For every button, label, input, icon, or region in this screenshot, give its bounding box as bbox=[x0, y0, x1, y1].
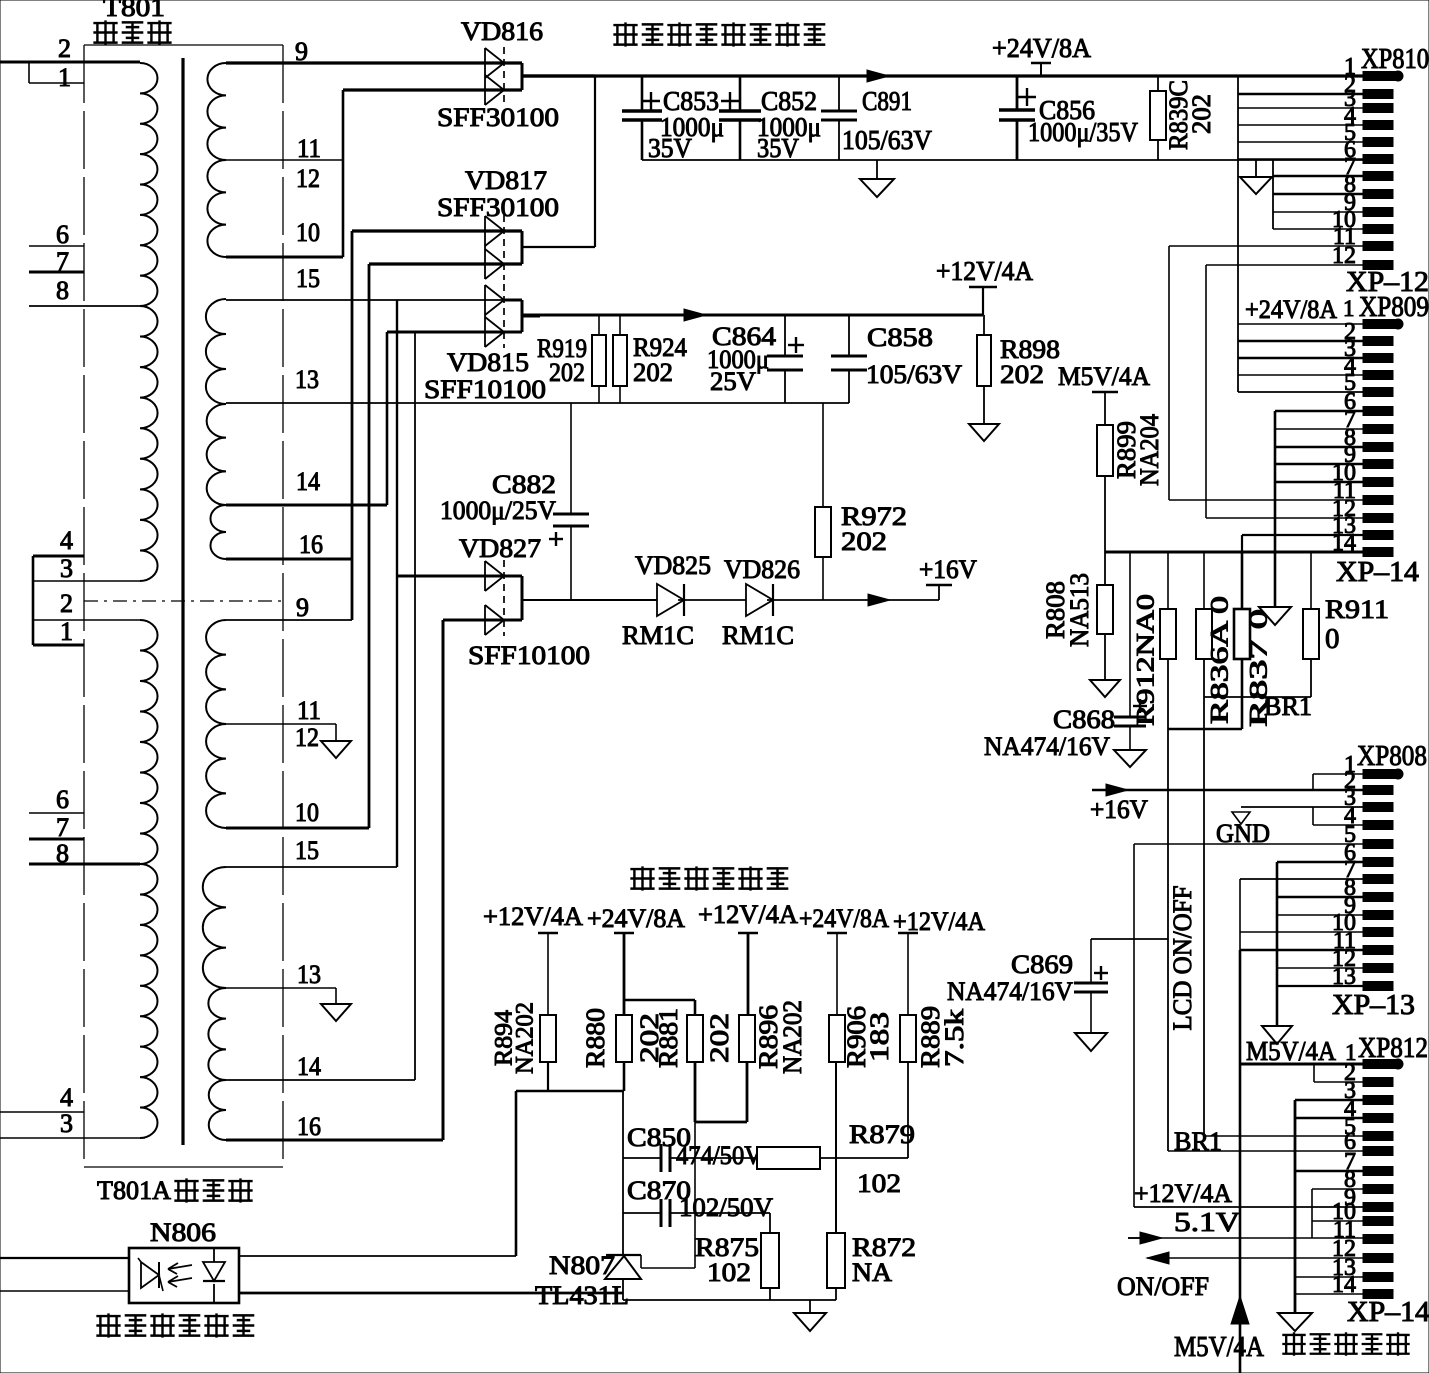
connector XP812 pin 7 bbox=[1363, 1167, 1393, 1176]
wire C870 to R875 bbox=[769, 1213, 771, 1233]
connector XP810 pin 6 bbox=[1363, 155, 1393, 164]
svg-text:14: 14 bbox=[296, 467, 320, 496]
svg-text:10: 10 bbox=[295, 798, 319, 827]
ground below R898 bbox=[969, 424, 999, 441]
transformer T801 outline box bbox=[84, 44, 283, 46]
TL431 ref tick bbox=[640, 1255, 642, 1268]
plus sign C868 bbox=[1133, 705, 1147, 707]
resistor R889 bbox=[900, 1015, 916, 1062]
svg-text:0: 0 bbox=[1325, 623, 1340, 655]
riser R912 net down bbox=[1167, 729, 1169, 1151]
bracket XP808 pin1 bbox=[1313, 773, 1363, 775]
wire R906 bottom to R872 bbox=[835, 1062, 837, 1233]
wire R879 right to R889 bbox=[820, 1157, 908, 1159]
wire XP810 pin2 bbox=[1238, 93, 1363, 96]
riser pin14 lower to VD815 lower line bbox=[414, 332, 416, 1080]
resistor R898 bbox=[983, 315, 985, 335]
wire pin6 lower bbox=[29, 812, 84, 814]
wire XP809 pin7 bbox=[1275, 428, 1363, 430]
connector XP808 pin 5 bbox=[1363, 840, 1393, 849]
svg-text:+12V/4A: +12V/4A bbox=[1134, 1179, 1232, 1208]
svg-text:ON/OFF: ON/OFF bbox=[1117, 1272, 1209, 1301]
riser XP810 pin11 to XP809 pin11 bbox=[1168, 246, 1170, 500]
wire VD817 output to +24V rail bbox=[522, 246, 595, 248]
+12V rail bbox=[522, 314, 983, 317]
resistor R837 bbox=[1241, 552, 1244, 609]
triangle end of XP808 bus bbox=[1262, 1026, 1292, 1044]
wire VD816 output bbox=[522, 74, 595, 77]
svg-text:105/63V: 105/63V bbox=[842, 125, 932, 155]
wire pin4 bottom bbox=[0, 1111, 84, 1113]
wire +16V to XP808 bbox=[1092, 789, 1363, 792]
svg-text:T801A: T801A bbox=[97, 1176, 171, 1205]
wire XP812 pin5 BR1 bbox=[1204, 1135, 1363, 1137]
svg-text:SFF10100: SFF10100 bbox=[424, 375, 546, 404]
wire XP810 pin5 bbox=[1238, 141, 1363, 143]
svg-text:12: 12 bbox=[295, 723, 319, 752]
wire ON/OFF line bbox=[1147, 1257, 1363, 1259]
wire XP810 pin11 bbox=[1169, 245, 1363, 247]
optocoupler N806 box bbox=[129, 1248, 239, 1303]
wire pin16 lower bbox=[226, 1139, 443, 1142]
T801 primary winding upper bbox=[140, 63, 157, 306]
wire pin9 upper to VD816 bbox=[226, 61, 522, 64]
connector XP809 pin 6 bbox=[1363, 425, 1393, 434]
arrow on +12V rail bbox=[684, 309, 706, 321]
wire R912 R837 bottoms bbox=[1167, 659, 1169, 729]
node riser pin10/12 to VD816 bbox=[342, 90, 345, 257]
svg-text:+12V/4A: +12V/4A bbox=[698, 900, 798, 929]
svg-text:R879: R879 bbox=[849, 1120, 915, 1149]
connector XP810 pin 3 bbox=[1363, 104, 1393, 113]
svg-text:105/63V: 105/63V bbox=[866, 360, 962, 389]
connector XP810 pin 7 bbox=[1363, 172, 1393, 181]
svg-text:14: 14 bbox=[297, 1052, 321, 1081]
svg-text:R836A 0: R836A 0 bbox=[1207, 596, 1234, 724]
svg-text:C869: C869 bbox=[1011, 950, 1073, 979]
wire XP808 pin9 bbox=[1277, 914, 1363, 916]
M5V terminal bbox=[1092, 391, 1118, 394]
optocoupler LED bbox=[141, 1262, 159, 1288]
svg-text:T801: T801 bbox=[103, 0, 165, 22]
svg-text:RM1C: RM1C bbox=[722, 621, 794, 650]
+12V terminal bbox=[969, 286, 997, 289]
svg-text:25V: 25V bbox=[710, 367, 756, 396]
wire XP812 pin3 bbox=[1295, 1099, 1363, 1102]
wire XP812 pin7 bbox=[1295, 1170, 1363, 1173]
svg-text:NA204: NA204 bbox=[1135, 414, 1164, 486]
wire pin14 lower bbox=[226, 1079, 415, 1081]
wire feedback riser to optocoupler bbox=[515, 1091, 518, 1256]
connector XP812 pin 4 bbox=[1363, 1114, 1393, 1123]
svg-text:1000μ/35V: 1000μ/35V bbox=[1028, 117, 1138, 147]
connector XP812 pin 10 bbox=[1363, 1217, 1393, 1226]
wire XP808 pin6 bbox=[1277, 861, 1363, 864]
ground rail top section bbox=[642, 159, 1363, 161]
svg-text:102: 102 bbox=[707, 1258, 751, 1287]
svg-text:16: 16 bbox=[299, 530, 323, 559]
optocoupler arrows bbox=[168, 1263, 192, 1274]
connector XP812 pin 5 bbox=[1363, 1132, 1393, 1141]
resistor R912 bbox=[1167, 552, 1169, 609]
wire XP809 pin13 bbox=[1242, 534, 1363, 536]
svg-text:11: 11 bbox=[297, 696, 321, 725]
optocoupler photodiode bbox=[213, 1248, 215, 1262]
connector XP808 pin 13 bbox=[1363, 982, 1393, 991]
svg-text:12: 12 bbox=[296, 164, 320, 193]
label 稳压光耦合器 bbox=[96, 1313, 120, 1337]
svg-text:R912NA0: R912NA0 bbox=[1133, 594, 1160, 726]
riser pin9 lower to VD817 upper bbox=[351, 231, 354, 620]
connector XP812 pin 9 bbox=[1363, 1203, 1393, 1212]
connector XP810 pin 11 bbox=[1363, 242, 1393, 251]
capacitor C850 bbox=[623, 1157, 661, 1159]
connector XP808 pin 6 bbox=[1363, 858, 1393, 867]
svg-text:183: 183 bbox=[865, 1012, 894, 1062]
connector XP810 pin 12 bbox=[1363, 261, 1393, 270]
T801 secondary winding upper bbox=[207, 63, 226, 160]
wire XP809 pin9 bbox=[1275, 463, 1363, 466]
wire pin4 mid bbox=[33, 555, 84, 558]
svg-text:NA202: NA202 bbox=[778, 1000, 807, 1074]
shunt regulator N807 TL431L bbox=[606, 1254, 641, 1256]
connector XP808 pin 10 bbox=[1363, 928, 1393, 937]
wire VD815 output +12V bbox=[522, 315, 540, 318]
wire XP812 pin4 bbox=[1295, 1117, 1363, 1120]
svg-text:474/50V: 474/50V bbox=[676, 1141, 762, 1170]
wire XP808 pin13 bbox=[1277, 985, 1363, 987]
connector XP808 pin 9 bbox=[1363, 911, 1393, 920]
wire R889 bottom bbox=[907, 1062, 909, 1158]
+24V terminal bbox=[1031, 62, 1051, 65]
svg-text:202: 202 bbox=[549, 358, 585, 387]
svg-text:N807: N807 bbox=[549, 1251, 615, 1280]
svg-text:VD816: VD816 bbox=[461, 17, 543, 46]
wire XP809 pin4 bbox=[1238, 374, 1363, 376]
resistor R972 bbox=[822, 403, 824, 507]
arrow +16V right bbox=[1106, 784, 1128, 796]
svg-text:6: 6 bbox=[56, 220, 69, 249]
svg-text:102: 102 bbox=[857, 1169, 901, 1198]
capacitor C868 bbox=[1129, 552, 1131, 717]
capacitor C870 bbox=[623, 1212, 661, 1214]
wire pin1 bracket T801 bbox=[28, 62, 30, 83]
arrow on +24V rail bbox=[867, 70, 889, 82]
svg-text:6: 6 bbox=[56, 785, 69, 814]
wire pin7 upper bbox=[29, 271, 84, 274]
svg-text:+12V/4A: +12V/4A bbox=[936, 256, 1033, 286]
svg-text:R911: R911 bbox=[1325, 595, 1389, 624]
ground symbol pin13 lower bbox=[321, 1004, 351, 1021]
svg-text:15: 15 bbox=[296, 264, 320, 293]
wire R899 bottom to M5V rail bbox=[1104, 476, 1106, 552]
ground below R808 bbox=[1090, 680, 1120, 697]
svg-text:NA474/16V: NA474/16V bbox=[947, 977, 1073, 1006]
wire VD815 lower input bbox=[387, 331, 522, 334]
capacitor C856 bbox=[1016, 76, 1019, 110]
bracket 5.1V pins 8 10 11 bbox=[1312, 1188, 1363, 1190]
wire BR1 net R836A R911 bbox=[1203, 659, 1205, 697]
resistor R875 bbox=[761, 1233, 779, 1288]
wire VD826 to +16V bbox=[767, 599, 939, 601]
connector XP810 pin 1 bbox=[1363, 72, 1395, 81]
svg-text:C858: C858 bbox=[867, 323, 933, 352]
svg-text:M5V/4A: M5V/4A bbox=[1246, 1036, 1336, 1066]
connector XP812 pin 1 bbox=[1363, 1060, 1395, 1069]
wire VD817 lower input bbox=[369, 262, 522, 265]
capacitor C858 bbox=[848, 315, 850, 356]
wire XP808 pin12 bbox=[1277, 967, 1363, 969]
terminal T4 bbox=[827, 932, 847, 935]
svg-text:XP–13: XP–13 bbox=[1332, 990, 1415, 1021]
capacitor C864 bbox=[784, 315, 786, 356]
svg-text:13: 13 bbox=[295, 365, 319, 394]
wire XP809 pin12 bbox=[1206, 517, 1363, 519]
terminal T5 bbox=[898, 932, 918, 935]
terminal T2 bbox=[614, 932, 634, 935]
capacitor C853 bbox=[641, 76, 644, 111]
svg-text:11: 11 bbox=[297, 134, 321, 163]
dual diode VD827 bbox=[484, 561, 486, 591]
connector XP812 pin 12 bbox=[1363, 1254, 1393, 1263]
ground below C868 bbox=[1114, 750, 1146, 767]
wire pin15 upper to VD815 bbox=[226, 299, 522, 301]
wire XP812 pin6 bbox=[1168, 1150, 1363, 1152]
svg-text:13: 13 bbox=[297, 960, 321, 989]
wire C850 C870 left bus bbox=[622, 1091, 624, 1255]
bus XP812 main bbox=[1294, 1100, 1297, 1313]
wire XP809 pin8 bbox=[1275, 446, 1363, 449]
svg-text:SFF30100: SFF30100 bbox=[437, 193, 559, 222]
riser pin15 to VD827 upper bbox=[396, 300, 398, 867]
connector XP812 pin 13 bbox=[1363, 1273, 1393, 1282]
svg-text:M5V/4A: M5V/4A bbox=[1174, 1331, 1264, 1363]
capacitor C882 bbox=[570, 403, 572, 514]
resistor R836A bbox=[1203, 552, 1205, 609]
capacitor C891 bbox=[838, 76, 840, 111]
svg-text:2: 2 bbox=[60, 589, 73, 618]
svg-text:202: 202 bbox=[705, 1013, 734, 1063]
svg-text:LCD ON/OFF: LCD ON/OFF bbox=[1168, 886, 1197, 1031]
resistor R872 bbox=[827, 1233, 845, 1288]
diode VD825 bbox=[657, 584, 684, 616]
plus sign C856 bbox=[1018, 96, 1036, 98]
wire XP809 pin10 bbox=[1275, 481, 1363, 484]
svg-text:XP–14: XP–14 bbox=[1347, 1297, 1429, 1328]
terminal T3 bbox=[738, 932, 758, 935]
resistor R880 bbox=[616, 1015, 632, 1062]
wire R881 R896 bottoms bbox=[694, 1062, 697, 1122]
ground below C869 bbox=[1075, 1033, 1107, 1051]
resistor R808 bbox=[1104, 552, 1106, 585]
svg-text:+16V: +16V bbox=[919, 555, 977, 584]
wire XP808 pin11 bbox=[1240, 949, 1363, 952]
wire pin9 lower bbox=[226, 619, 352, 621]
wire pin8 lower bbox=[29, 863, 140, 866]
svg-text:+24V/8A: +24V/8A bbox=[799, 904, 889, 933]
svg-text:XP810: XP810 bbox=[1361, 44, 1429, 75]
svg-text:1: 1 bbox=[60, 617, 73, 646]
riser pin14 to VD815 lower bbox=[386, 332, 389, 505]
wire XP810 pin10 bbox=[1273, 228, 1363, 230]
wire pin11/12 lower tap bbox=[226, 723, 336, 725]
wire pin14 upper bbox=[226, 504, 387, 507]
svg-text:4: 4 bbox=[60, 526, 73, 555]
svg-text:35V: 35V bbox=[648, 133, 692, 163]
wire XP808 pin8 bbox=[1277, 896, 1363, 899]
connector XP808 pin 2 bbox=[1363, 786, 1393, 795]
svg-text:NA474/16V: NA474/16V bbox=[984, 732, 1110, 761]
riser BR1 to XP812 pin5 bbox=[1203, 697, 1205, 1136]
connector XP810 pin 8 bbox=[1363, 190, 1393, 199]
svg-text:VD826: VD826 bbox=[724, 555, 800, 584]
connector XP809 pin 5 bbox=[1363, 407, 1393, 416]
wire XP812 pin1 M5V bbox=[1240, 1063, 1363, 1066]
connector XP809 pin 7 bbox=[1363, 443, 1393, 452]
connector XP812 pin 14 bbox=[1363, 1290, 1393, 1299]
ground symbol below C891 bbox=[876, 160, 878, 179]
connector XP809 pin 8 bbox=[1363, 460, 1393, 469]
capacitor C852 bbox=[739, 76, 742, 111]
connector XP808 pin 4 bbox=[1363, 821, 1393, 830]
ground symbol XP810 bbox=[1255, 160, 1257, 177]
wire VD816 lower input bbox=[343, 88, 522, 91]
connector XP808 pin 12 bbox=[1363, 964, 1393, 973]
M5V rail bbox=[1105, 551, 1363, 554]
wire VD827 lower input bbox=[443, 619, 522, 622]
wire VD817 upper input bbox=[352, 229, 522, 232]
resistor R839C bbox=[1157, 76, 1159, 91]
terminal T1 bbox=[538, 932, 558, 935]
wire optocoupler left top bbox=[0, 1257, 129, 1259]
transformer core bbox=[181, 58, 184, 1145]
wire XP810 pin8 bbox=[1273, 193, 1363, 196]
wire XP810 pin6 bbox=[1238, 158, 1363, 160]
wire pin13 upper 12V return rail bbox=[226, 402, 849, 404]
riser pin16 lower to VD827 lower bbox=[442, 620, 445, 1140]
svg-text:+24V/8A: +24V/8A bbox=[587, 904, 685, 933]
svg-text:N806: N806 bbox=[150, 1218, 216, 1247]
connector XP809 pin 13 bbox=[1363, 548, 1393, 557]
riser pin10 lower to VD817 lower bbox=[368, 264, 371, 828]
svg-text:+24V/8A: +24V/8A bbox=[992, 33, 1091, 63]
connector XP812 pin 2 bbox=[1363, 1078, 1393, 1087]
svg-text:202: 202 bbox=[1000, 360, 1044, 389]
ground below R875/R872 bbox=[809, 1300, 811, 1313]
svg-text:C868: C868 bbox=[1053, 705, 1115, 734]
wire XP809 pin3 bbox=[1238, 357, 1363, 360]
svg-text:10: 10 bbox=[296, 218, 320, 247]
wire XP808 pin3 GND bbox=[1241, 806, 1363, 808]
svg-text:102/50V: 102/50V bbox=[679, 1193, 773, 1222]
bus +24V to XP810 pins bbox=[1237, 76, 1239, 392]
connector XP812 pin 11 bbox=[1363, 1235, 1393, 1244]
svg-text:SFF10100: SFF10100 bbox=[468, 641, 590, 670]
riser XP810 pin12 to XP809 pin12 bbox=[1205, 265, 1207, 518]
wire pin6 upper bbox=[29, 245, 84, 247]
connector XP809 pin 3 bbox=[1363, 371, 1393, 380]
T801A primary winding lower bbox=[140, 620, 158, 864]
wire VD825 to VD826 bbox=[678, 599, 746, 601]
svg-text:VD825: VD825 bbox=[635, 551, 711, 580]
arrow ON/OFF bbox=[1147, 1252, 1169, 1264]
svg-text:M5V/4A: M5V/4A bbox=[1058, 362, 1150, 391]
wire XP808 pin7 bbox=[1240, 878, 1363, 880]
svg-text:35V: 35V bbox=[757, 133, 799, 163]
svg-text:4: 4 bbox=[60, 1083, 73, 1112]
svg-text:+12V/4A: +12V/4A bbox=[483, 902, 583, 931]
svg-text:R880: R880 bbox=[581, 1008, 610, 1068]
wire pin15 lower bbox=[226, 866, 397, 868]
connector XP810 pin 9 bbox=[1363, 208, 1393, 217]
svg-text:BR1: BR1 bbox=[1264, 692, 1312, 721]
wire 5.1V line bbox=[1128, 1237, 1363, 1239]
svg-text:5.1V: 5.1V bbox=[1174, 1207, 1241, 1237]
wire XP812 pin13 bbox=[1295, 1276, 1363, 1278]
wire XP809 pin5 bbox=[1238, 391, 1363, 393]
wire XP812 pin14 bbox=[1295, 1293, 1363, 1295]
plus sign C852 bbox=[721, 100, 739, 102]
svg-text:XP809: XP809 bbox=[1359, 292, 1429, 323]
svg-text:VD817: VD817 bbox=[465, 166, 547, 195]
svg-text:202: 202 bbox=[1187, 94, 1216, 134]
resistor R911 bbox=[1310, 552, 1312, 609]
svg-text:202: 202 bbox=[841, 527, 887, 556]
wire optocoupler right top feedback bbox=[239, 1255, 516, 1257]
wire pin3 bottom bbox=[0, 1137, 145, 1139]
M5V riser from bottom bbox=[1239, 950, 1242, 1373]
wire pin13 lower tap bbox=[226, 987, 336, 989]
svg-text:XP–14: XP–14 bbox=[1336, 557, 1419, 588]
svg-text:TL431L: TL431L bbox=[535, 1281, 629, 1310]
svg-text:R881: R881 bbox=[654, 1008, 683, 1068]
ground triangle XP812 bus bbox=[1278, 1313, 1312, 1331]
connector XP810 pin 5 bbox=[1363, 138, 1393, 147]
svg-text:15: 15 bbox=[295, 836, 319, 865]
bracket vertical mid pins bbox=[32, 556, 35, 645]
svg-text:1: 1 bbox=[1343, 296, 1355, 321]
bracket XP808 pin4 bbox=[1313, 824, 1363, 826]
wire VD827 output bbox=[522, 599, 657, 601]
connector XP809 pin 12 bbox=[1363, 531, 1393, 540]
wire pin10 lower bbox=[226, 827, 369, 830]
+24V rail bbox=[522, 74, 1363, 77]
svg-text:3: 3 bbox=[60, 1109, 73, 1138]
wire R881 top to +24V stub bbox=[694, 1000, 697, 1015]
capacitor C869 bbox=[1090, 939, 1092, 983]
svg-text:+16V: +16V bbox=[1090, 795, 1148, 824]
dual diode VD817 bbox=[484, 216, 486, 279]
wire to C869 bbox=[1091, 938, 1168, 940]
wire XP809 pin2 bbox=[1238, 340, 1363, 343]
wire pin16 upper bbox=[226, 558, 352, 561]
connector XP808 pin 1 bbox=[1363, 770, 1395, 779]
wire TL431 anode to optocoupler bbox=[239, 1292, 623, 1295]
resistor R896 bbox=[739, 1015, 755, 1062]
connector XP809 pin 10 bbox=[1363, 496, 1393, 505]
wire optocoupler left bottom bbox=[0, 1290, 129, 1292]
svg-text:1000μ/25V: 1000μ/25V bbox=[440, 496, 556, 525]
svg-text:SFF30100: SFF30100 bbox=[437, 103, 559, 132]
connector XP808 pin 11 bbox=[1363, 946, 1393, 955]
gnd arrow XP808 pin3 bbox=[1232, 812, 1250, 824]
T801A secondary winding lower bbox=[206, 620, 226, 724]
connector XP810 pin 10 bbox=[1363, 225, 1393, 234]
connector XP809 pin 1 bbox=[1363, 320, 1395, 329]
label 变压器 bbox=[93, 20, 117, 44]
connector XP812 pin 6 bbox=[1363, 1147, 1393, 1156]
svg-text:9: 9 bbox=[296, 593, 309, 622]
